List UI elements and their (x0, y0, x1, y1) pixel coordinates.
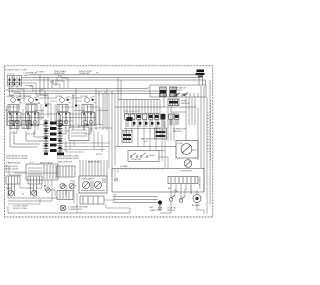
svg-text:RF SW: RF SW (56, 96, 63, 98)
node P1 ext blob (175, 115, 178, 118)
svg-text:2100W UNIT: 2100W UNIT (54, 73, 66, 75)
svg-text:SURF ELEM RR 2100W: SURF ELEM RR 2100W (57, 158, 79, 160)
label cavity rotated (198, 176, 201, 190)
label L1 SURFACE (7, 72, 37, 77)
connector P1 end pins (161, 114, 165, 127)
surface switch SW1 (LF) (8, 98, 19, 130)
label chassis ground note (68, 206, 89, 212)
label top small texts (30, 72, 98, 92)
svg-text:6: 6 (65, 150, 66, 152)
label buzzer (192, 205, 201, 207)
wire lower right drops (160, 184, 204, 213)
svg-text:RR SW: RR SW (81, 96, 88, 98)
svg-text:3: 3 (65, 133, 66, 135)
wire harness to ground C (113, 202, 158, 204)
lock switch S4 (179, 197, 185, 203)
wire top-left jogged feeders (12, 75, 68, 97)
label SW2 (25, 96, 40, 102)
svg-text:BROIL: BROIL (28, 188, 35, 190)
node chassis ground junction (158, 201, 162, 211)
hidden bake element assembly (57, 166, 75, 177)
svg-text:BROIL RELAY: BROIL RELAY (40, 161, 54, 164)
label element list right (57, 156, 79, 161)
terminal block inner divider (7, 76, 22, 87)
svg-text:OVEN CAVITY: OVEN CAVITY (198, 176, 201, 190)
wire switch bank texture (8, 98, 112, 129)
lock switch S3 (169, 196, 175, 202)
label ignitor (6, 187, 35, 190)
label SW1 (7, 96, 22, 102)
surface element E3 dual coil (57, 113, 71, 126)
svg-text:BK W R OR BU: BK W R OR BU (13, 208, 28, 210)
svg-text:CONV ELEM: CONV ELEM (180, 171, 192, 173)
cavity lamp (114, 178, 117, 181)
label bottom-right small text (168, 188, 178, 193)
svg-text:BUZZER: BUZZER (192, 205, 201, 207)
surface element E2 dual coil (26, 113, 40, 126)
svg-text:FAN 120V: FAN 120V (173, 130, 182, 133)
broil switch SB2 (28, 176, 42, 196)
schematic frame border (4, 66, 213, 217)
wire bottom texture (8, 193, 130, 213)
label color codes (13, 206, 28, 211)
wire bottom long run (8, 212, 130, 214)
connector P1 tail ticks (124, 128, 160, 134)
label top mid texts (6, 70, 28, 92)
svg-text:W: W (114, 198, 116, 200)
svg-text:1250W UNIT: 1250W UNIT (79, 73, 91, 75)
svg-text:MTR: MTR (193, 150, 198, 152)
node switch small blobs (18, 99, 94, 107)
svg-text:LIGHT: LIGHT (149, 155, 156, 157)
meat probe jack circle (46, 188, 51, 193)
label ground (149, 207, 154, 209)
wire right riser bundle (186, 80, 210, 205)
pin number column P2 (65, 122, 66, 152)
ignitor I1 (60, 183, 65, 188)
svg-text:BAKE: BAKE (6, 187, 12, 190)
svg-text:MAIN TOP: MAIN TOP (150, 209, 160, 212)
connector P1 pin row (124, 114, 160, 128)
terminal block TB1 (L1/L2/N power terminals) (7, 76, 22, 87)
svg-text:MEAT PROBE: MEAT PROBE (88, 160, 101, 163)
svg-text:DOOR: DOOR (96, 154, 102, 156)
label harness pins (114, 195, 117, 203)
label right mid texts (160, 129, 186, 138)
label EOC pins (60, 129, 102, 156)
relay block contacts in latch header (160, 87, 177, 97)
wire right mid feeders (159, 107, 174, 169)
svg-text:P1 1 2 3 4 5 6 7 8: P1 1 2 3 4 5 6 7 8 (124, 111, 141, 113)
wire riser from TB1 (10, 86, 15, 95)
right border tick column (208, 100, 211, 160)
double line break DLB relay (10, 121, 31, 129)
wire switch interconnects (21, 89, 107, 131)
connector P2 strip (44, 119, 63, 154)
svg-text:5: 5 (65, 144, 66, 146)
node stepped feeders (40, 75, 56, 92)
light switch box (57, 191, 73, 200)
convection element circle (184, 160, 192, 168)
svg-text:= CHASSIS GROUND: = CHASSIS GROUND (68, 206, 89, 209)
buzzer BZ1 (193, 195, 201, 203)
surface switch SW3 (RF) (57, 98, 68, 130)
spark module box (80, 196, 104, 204)
wire upper extra horizontals (8, 95, 48, 96)
svg-text:GRD: GRD (149, 207, 154, 209)
wire lower-left texture (6, 164, 58, 201)
label lower mid text row (57, 160, 101, 163)
surface element E1 dual coil (8, 113, 22, 126)
wire bottom-right drops (175, 185, 204, 214)
broil element B2 (31, 190, 36, 195)
label bake relay (8, 161, 54, 164)
svg-text:P4: P4 (90, 129, 92, 131)
wire middle bus feed (118, 99, 160, 101)
svg-text:POWER SUPPLY CORD: POWER SUPPLY CORD (6, 70, 28, 72)
terminal strip lower right (168, 177, 198, 184)
node switch terminal dots (9, 113, 92, 126)
label switch pilot texts (8, 121, 86, 123)
node latch header blobs (160, 90, 176, 93)
bake element B1 (8, 190, 13, 195)
connector P5 label (196, 70, 205, 77)
svg-text:BAKE RELAY: BAKE RELAY (8, 161, 21, 164)
svg-text:UNLOCK: UNLOCK (167, 210, 176, 212)
label SW4 (81, 96, 96, 102)
wire switch row jogs (16, 96, 95, 101)
svg-text:OVEN LIGHT SW: OVEN LIGHT SW (57, 161, 72, 163)
label bottom right texts (167, 208, 176, 213)
svg-text:W: W (176, 191, 178, 193)
label top row unit names (54, 70, 93, 75)
label relay ratings (6, 165, 18, 170)
surface switch SW2 (LR) (26, 98, 37, 130)
ignitor I2 (69, 183, 74, 188)
oven element relay box EOC (69, 127, 89, 141)
svg-text:OVEN LAMPS: OVEN LAMPS (81, 178, 95, 181)
wire element risers (80, 160, 107, 176)
label EOC (70, 125, 88, 127)
label convection element (180, 171, 192, 173)
wire middle lower risers (138, 121, 165, 169)
label P2 above cavity (120, 165, 128, 168)
wire main horizontal bus C (14, 94, 164, 108)
node P2 dark pin blobs extra (44, 122, 64, 156)
svg-text:W: W (41, 90, 43, 92)
svg-text:3 4: 3 4 (30, 162, 33, 164)
wire lamp drops (8, 181, 74, 201)
svg-text:4: 4 (65, 139, 66, 141)
wire under-switch drops (10, 121, 91, 135)
wire strip extra drops (176, 184, 207, 214)
wire middle riser bundle (112, 77, 160, 168)
svg-text:1 2: 1 2 (6, 162, 9, 164)
wire EOC harness (60, 131, 110, 152)
svg-text:CONV: CONV (177, 143, 183, 145)
relay K1 (168, 99, 179, 106)
wire L2 bus (22, 77, 203, 85)
svg-text:P3: P3 (96, 72, 98, 74)
convection fan motor M1 (176, 141, 198, 159)
svg-text:CONNECTION: CONNECTION (68, 209, 82, 211)
svg-text:2: 2 (65, 128, 66, 130)
label oven sensor (181, 101, 190, 106)
oven light L1 (60, 205, 66, 211)
fuse block F1 (122, 131, 132, 143)
wire sensor drop (171, 106, 186, 112)
svg-text:BROIL 3410W: BROIL 3410W (6, 169, 18, 171)
svg-text:UNITS: UNITS (24, 75, 31, 77)
label SW3 (56, 96, 71, 102)
label oven lamps (81, 178, 95, 181)
svg-text:L1 L2 N: L1 L2 N (7, 73, 15, 75)
label fan switch (141, 138, 154, 144)
svg-text:DOOR SW: DOOR SW (131, 159, 141, 161)
wire cavity interior drops (112, 169, 118, 178)
label element list left (6, 156, 28, 161)
node P1 extra pin blobs (133, 114, 165, 125)
surface switch SW4 (RR) (82, 98, 93, 130)
svg-text:P6: P6 (60, 129, 62, 131)
wire DLB loop (10, 131, 48, 147)
wire middle bus feed2 (115, 106, 196, 108)
label door switch (131, 155, 156, 161)
svg-text:SENSOR: SENSOR (181, 103, 190, 105)
bake switch SB1 (6, 176, 20, 196)
node TB1 lower dots (9, 83, 21, 85)
node pin blob (127, 117, 133, 121)
label under ground (150, 209, 160, 212)
wire harness to ground B (113, 199, 158, 201)
svg-text:SURF ELEM LR 1500W: SURF ELEM LR 1500W (6, 158, 28, 160)
svg-text:P2 MAIN: P2 MAIN (120, 165, 128, 168)
connector P1 right extension (169, 114, 179, 125)
label lower-left texts (6, 162, 77, 196)
wire left bank extra texture (5, 91, 109, 168)
surface element E4 dual coil (82, 113, 96, 126)
wire bottom drop left (7, 206, 9, 213)
oven lamp hatch (81, 178, 105, 191)
label mid small texts (20, 95, 100, 104)
oven lamp assembly (79, 176, 107, 193)
svg-text:FAN SWITCH: FAN SWITCH (141, 138, 154, 141)
wire harness to ground A (113, 196, 158, 198)
label P1 (124, 111, 141, 113)
door switch S2 (128, 151, 159, 162)
wire L1 bus (30, 75, 199, 85)
svg-text:L2 OVEN: L2 OVEN (36, 72, 45, 74)
node P2 blobs (45, 122, 62, 149)
wire N bus (22, 80, 206, 85)
latch switch contacts (175, 93, 188, 96)
wire main horizontal bus A (8, 87, 148, 89)
door latch motor label (172, 87, 186, 93)
relay DLB2 hatched (155, 128, 167, 139)
label convection motor (177, 143, 197, 152)
connector P4 latch header (150, 85, 206, 97)
connector edge ticks on cavity top (122, 168, 162, 170)
bake relay block (26, 164, 58, 180)
wire main horizontal bus B (8, 91, 160, 97)
wire fan feed (115, 146, 176, 148)
oven cavity outline (112, 169, 204, 193)
svg-text:W: W (22, 194, 24, 196)
svg-text:N.O.: N.O. (144, 141, 149, 143)
